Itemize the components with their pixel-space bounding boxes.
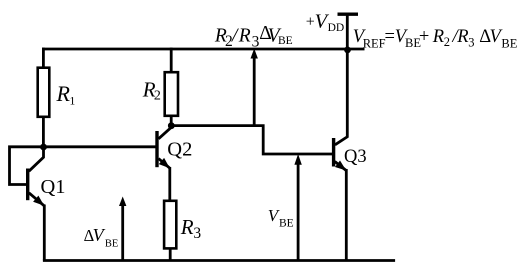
svg-text:R: R [456,27,468,47]
svg-text:R: R [238,26,251,47]
svg-text:1: 1 [69,93,75,107]
svg-text:3: 3 [468,36,474,50]
svg-text:+: + [419,27,429,47]
svg-text:R: R [432,27,444,47]
svg-text:BE: BE [501,36,517,50]
svg-text:2: 2 [444,35,450,49]
svg-text:DD: DD [328,22,345,34]
svg-text:BE: BE [105,238,118,249]
svg-text:BE: BE [278,35,293,47]
svg-text:BE: BE [279,218,294,230]
svg-text:Q2: Q2 [167,139,192,161]
svg-text:=: = [385,27,395,47]
svg-text:3: 3 [193,225,201,242]
svg-text:+: + [306,14,315,31]
svg-text:/: / [231,26,239,47]
svg-text:Q1: Q1 [41,176,66,198]
svg-text:REF: REF [363,36,386,50]
svg-text:2: 2 [154,89,161,104]
svg-text:Q3: Q3 [344,147,367,167]
svg-text:R: R [56,81,71,106]
svg-text:V: V [93,225,106,245]
svg-text:R: R [180,215,194,239]
